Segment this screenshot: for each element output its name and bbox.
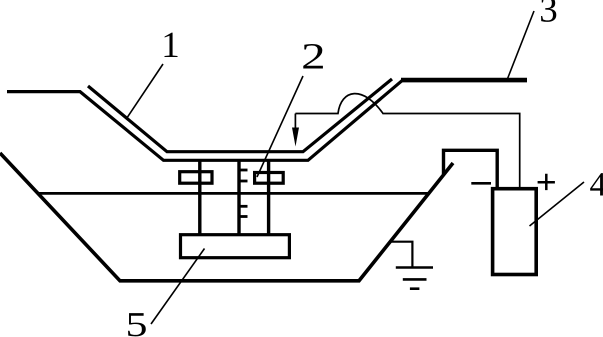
svg-text:5: 5 xyxy=(126,305,148,337)
svg-text:2: 2 xyxy=(301,36,326,77)
svg-text:4: 4 xyxy=(590,167,603,204)
svg-text:3: 3 xyxy=(539,0,558,31)
svg-text:1: 1 xyxy=(161,25,180,66)
